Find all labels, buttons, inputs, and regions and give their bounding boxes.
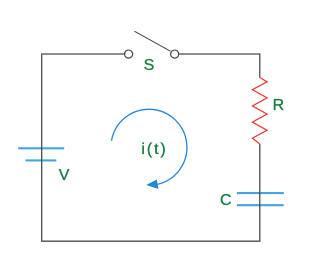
current loop arrow arc [111, 109, 186, 184]
wire bottom rail [41, 240, 260, 242]
wire right rail lower [259, 144, 261, 241]
capacitor C top plate [237, 192, 284, 194]
wire top rail right segment [179, 53, 260, 55]
battery V long plate [18, 147, 64, 149]
capacitor C bottom plate [237, 204, 284, 206]
battery V short plate [26, 159, 57, 161]
switch S left contact [125, 50, 133, 58]
svg-text:V: V [59, 167, 70, 184]
resistor R [252, 78, 267, 145]
svg-text:R: R [273, 97, 285, 114]
wire left rail [41, 54, 43, 241]
svg-text:S: S [144, 57, 155, 74]
wire right rail upper [259, 53, 261, 77]
switch S right contact [171, 50, 179, 58]
svg-text:C: C [220, 192, 232, 209]
switch S blade [134, 31, 170, 51]
current loop arrowhead [148, 180, 158, 188]
wire top rail left segment [41, 53, 124, 55]
svg-text:i(t): i(t) [141, 141, 167, 158]
